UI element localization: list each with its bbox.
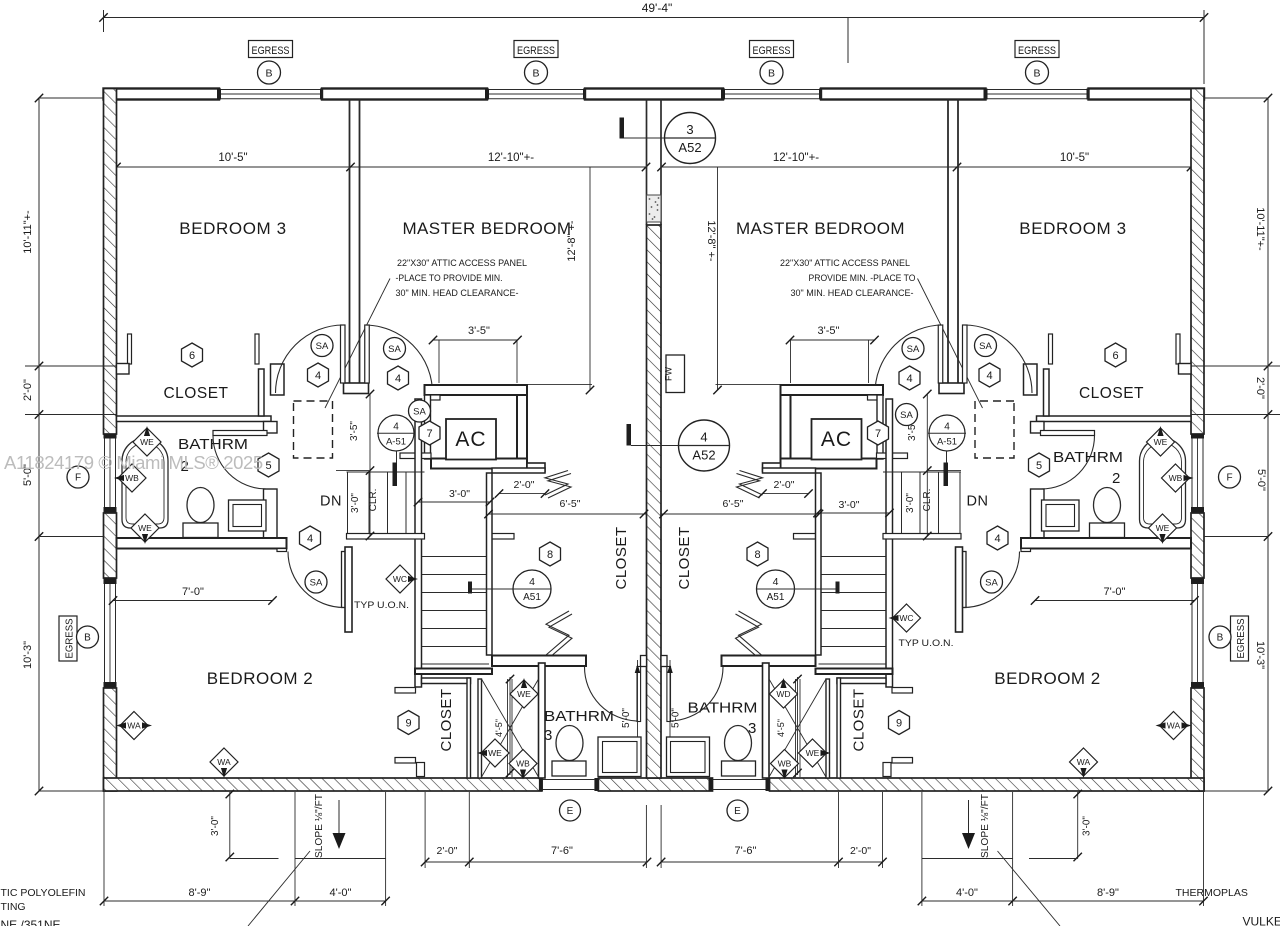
EGRESS label 4: [1015, 41, 1059, 58]
shower glass cross L: [482, 679, 539, 777]
svg-text:TYP U.O.N.: TYP U.O.N.: [354, 600, 409, 611]
svg-text:SA: SA: [413, 406, 426, 417]
hex keynote 6 closet R: [1105, 343, 1126, 367]
upper stair flight treads R: [959, 472, 961, 534]
wall break zigzag upper R: [740, 471, 763, 496]
svg-text:9: 9: [405, 717, 411, 729]
hex keynote 4 vestibule-right L: [388, 366, 409, 390]
svg-text:10'-11"+-: 10'-11"+-: [22, 210, 34, 254]
AC closet top wall R: [781, 385, 884, 395]
shower keynote WB L: [509, 750, 537, 778]
attic note leader left: [325, 279, 390, 409]
svg-text:SLOPE ⅛"/FT: SLOPE ⅛"/FT: [314, 794, 325, 858]
svg-text:A51: A51: [767, 592, 785, 603]
dim 7'-6" bottom right: [660, 805, 662, 868]
hex keynote 8 central closet L: [540, 542, 561, 566]
bedroom2 closet east wall R: [837, 678, 841, 778]
dim 3'-0" slope right: [1077, 792, 1079, 859]
shower west wall L: [478, 679, 482, 778]
svg-text:4: 4: [529, 576, 535, 588]
svg-text:2'-0": 2'-0": [1254, 377, 1266, 399]
svg-text:BATHRM: BATHRM: [1053, 449, 1123, 466]
tub keynote WE bottom L: [131, 514, 159, 542]
left side egress circle B: [77, 626, 99, 648]
hex keynote 4 hall L: [300, 526, 321, 550]
bathroom3 door leaf R: [667, 667, 671, 722]
svg-text:9: 9: [896, 717, 902, 729]
hex keynote 4 hall R: [987, 526, 1008, 550]
top exterior wall segment D: [821, 89, 986, 100]
bottom wall left unit threshold opening: [542, 779, 595, 781]
svg-text:WE: WE: [806, 748, 820, 758]
bottom wall right unit threshold opening: [713, 779, 766, 781]
svg-text:2'-0": 2'-0": [774, 479, 795, 491]
svg-text:4: 4: [700, 430, 707, 445]
tub keynote WE top L: [133, 428, 161, 456]
svg-text:3: 3: [686, 122, 693, 137]
svg-text:WB: WB: [125, 473, 139, 483]
shower keynote WE left L: [481, 739, 509, 767]
svg-text:NE /351NE: NE /351NE: [1, 918, 61, 926]
svg-text:CLOSET: CLOSET: [613, 526, 630, 589]
smoke alarm SA by AC R: [896, 404, 918, 426]
svg-text:5'-0": 5'-0": [621, 708, 632, 728]
svg-text:4: 4: [773, 576, 779, 588]
svg-text:AC: AC: [455, 428, 486, 451]
svg-text:2: 2: [1112, 470, 1120, 487]
slope arrow right: [968, 800, 970, 833]
bathroom2 right wall lower L: [264, 489, 278, 538]
bathroom2 right wall lower R: [1031, 489, 1045, 538]
master bedroom door leaf R: [938, 325, 943, 383]
svg-text:5'-0": 5'-0": [1255, 469, 1267, 491]
vanity bathroom3 R: [667, 737, 710, 777]
svg-text:FW: FW: [664, 367, 674, 381]
svg-text:7: 7: [875, 428, 881, 440]
bathtub R: [1140, 438, 1186, 528]
left exterior wall lower hatched section: [104, 688, 117, 791]
svg-text:6: 6: [189, 350, 195, 362]
AC unit box R: [812, 419, 862, 460]
wall break zigzag upper L: [545, 471, 568, 496]
bottom extension lines left: [103, 792, 105, 906]
bedroom3 closet bottom wall R: [1037, 416, 1192, 422]
slope arrow left: [338, 800, 340, 833]
svg-text:10'-11"+-: 10'-11"+-: [1254, 207, 1266, 251]
hex keynote 4 vestibule-left L: [308, 363, 329, 387]
svg-text:A-51: A-51: [386, 437, 406, 448]
right exterior wall lower hatched section: [1191, 688, 1204, 791]
svg-text:BEDROOM 2: BEDROOM 2: [207, 669, 314, 688]
right wall cap below bath window: [1191, 507, 1204, 513]
svg-text:BATHRM: BATHRM: [544, 708, 614, 725]
bedroom3 closet bottom wall L: [117, 416, 272, 422]
top wall window W2: [487, 89, 585, 91]
central closet top wall R: [763, 468, 816, 473]
svg-text:12'-8" +-: 12'-8" +-: [566, 220, 578, 262]
svg-text:22"X30" ATTIC ACCESS PANEL: 22"X30" ATTIC ACCESS PANEL: [397, 258, 527, 269]
svg-text:WE: WE: [138, 523, 152, 533]
left wall cap below bath window: [104, 507, 117, 513]
svg-text:SA: SA: [310, 577, 323, 588]
stair shaft bottom wall L: [415, 669, 492, 675]
tub keynote WE bottom R: [1149, 514, 1177, 542]
svg-text:10'-3": 10'-3": [1254, 641, 1266, 669]
central party wall stipple block: [647, 195, 662, 222]
wall break zigzag lower R: [739, 611, 762, 655]
svg-text:4: 4: [906, 373, 912, 385]
svg-text:7'-6": 7'-6": [735, 845, 757, 857]
bedroom2 closet top wall L: [422, 678, 471, 684]
AC unit box L: [446, 419, 496, 460]
svg-text:SLOPE ⅛"/FT: SLOPE ⅛"/FT: [980, 794, 991, 858]
AC closet left wall L: [425, 395, 431, 459]
bathroom2/bedroom2 wall L: [117, 538, 287, 549]
svg-text:8'-9": 8'-9": [1097, 887, 1119, 899]
right exterior wall mid hatched section: [1191, 513, 1204, 578]
attic access dashed panel R: [975, 401, 1014, 458]
toilet bathroom3 L: [556, 726, 583, 761]
left wall bedroom2 window: [104, 584, 106, 682]
svg-text:-PLACE TO PROVIDE MIN.: -PLACE TO PROVIDE MIN.: [396, 273, 503, 284]
right wall bathroom window: [1191, 439, 1193, 508]
svg-text:WE: WE: [488, 748, 502, 758]
left wall cap above bath window: [104, 434, 117, 439]
bathtub L: [122, 438, 168, 528]
leader line bottom right: [998, 851, 1061, 926]
svg-text:PROVIDE MIN. -PLACE TO: PROVIDE MIN. -PLACE TO: [809, 273, 916, 284]
svg-text:3'-5": 3'-5": [818, 325, 840, 337]
smoke alarm SA hall L: [305, 571, 327, 593]
smoke alarm SA by AC L: [409, 400, 431, 422]
slope pad edge left: [295, 858, 386, 860]
svg-text:4'-5": 4'-5": [776, 719, 786, 737]
wall keynote WA bottom R: [1070, 748, 1098, 776]
closet door jamb posts L: [128, 334, 132, 364]
svg-text:6'-5": 6'-5": [560, 498, 581, 510]
central closet west wall R: [816, 473, 822, 655]
landing edge at AC R: [877, 453, 908, 459]
tub keynote WB R: [1162, 464, 1190, 492]
central party wall hatched section: [647, 225, 662, 778]
svg-text:VULKE: VULKE: [1243, 915, 1280, 926]
svg-text:SA: SA: [907, 344, 920, 355]
svg-text:A51: A51: [523, 592, 541, 603]
central closet top wall L: [492, 468, 545, 473]
top exterior wall segment A: [104, 89, 220, 100]
svg-text:4: 4: [986, 370, 992, 382]
svg-text:A52: A52: [678, 140, 701, 155]
vanity bathroom2 R: [1042, 500, 1080, 531]
keynote WC diamond left: [386, 565, 414, 593]
svg-text:10'-3": 10'-3": [22, 641, 34, 669]
bedroom2 closet door jambs R: [892, 688, 913, 694]
svg-text:SA: SA: [985, 577, 998, 588]
top wall window W3: [723, 89, 821, 91]
hex keynote 6 closet L: [182, 343, 203, 367]
egress circle B4: [1026, 61, 1049, 84]
right side egress circle B: [1209, 626, 1231, 648]
bedroom3 closet right wall L: [259, 369, 265, 416]
svg-text:F: F: [75, 473, 81, 484]
hex keynote 7 L: [419, 421, 440, 445]
svg-text:4: 4: [994, 533, 1000, 545]
svg-text:WA: WA: [1077, 757, 1091, 767]
landing edge at AC L: [400, 453, 431, 459]
svg-text:4'-5": 4'-5": [494, 719, 504, 737]
main stair treads L: [422, 556, 489, 558]
svg-text:AC: AC: [821, 428, 852, 451]
toilet bathroom2 R: [1094, 488, 1121, 523]
dim 2'-0" bottom right: [838, 792, 840, 868]
bedroom3 door leaf L: [341, 325, 346, 383]
stair corridor west wall L: [415, 399, 422, 687]
bathroom2 right wall upper L: [264, 422, 278, 434]
smoke alarm SA vestibule-right L: [384, 338, 406, 360]
svg-text:3'-0": 3'-0": [449, 488, 470, 500]
stair corridor west wall R: [886, 399, 893, 687]
master door swing arc R: [875, 325, 943, 393]
shower east wall L: [539, 663, 546, 778]
svg-text:DN: DN: [320, 494, 342, 510]
EGRESS label 3: [750, 41, 794, 58]
svg-text:7'-0": 7'-0": [1104, 586, 1126, 598]
AC closet right wall L: [517, 395, 527, 464]
svg-text:B: B: [1033, 67, 1040, 79]
svg-text:F: F: [1226, 473, 1232, 484]
top exterior wall segment C (center): [585, 89, 723, 100]
svg-text:B: B: [1217, 633, 1224, 644]
bedroom3 door swing arc R: [964, 325, 1032, 393]
svg-text:EGRESS: EGRESS: [1236, 618, 1247, 658]
svg-text:WE: WE: [1154, 437, 1168, 447]
svg-text:A-51: A-51: [937, 437, 957, 448]
hex keynote 7 R: [868, 421, 889, 445]
dim 4'-5" shower right: [797, 677, 799, 775]
shower glass cross R: [769, 679, 826, 777]
stair landing edge L: [347, 534, 425, 540]
detail circle 4/A51 left: [513, 570, 551, 608]
shower west wall R: [826, 679, 830, 778]
svg-text:TING: TING: [1, 901, 26, 913]
bathroom3 door leaf L: [637, 667, 641, 722]
svg-text:B: B: [265, 67, 272, 79]
central closet west wall L: [487, 473, 493, 655]
svg-text:30" MIN. HEAD CLEARANCE-: 30" MIN. HEAD CLEARANCE-: [396, 288, 519, 299]
upper stair flight treads L: [347, 472, 349, 534]
wall keynote WA window R: [1160, 712, 1188, 740]
svg-text:CLOSET: CLOSET: [438, 688, 455, 751]
section cut marker 3/A52 tick bar: [620, 118, 625, 139]
bathroom2/bedroom2 wall R: [1021, 538, 1191, 549]
bedroom2 closet door jambs L: [395, 688, 416, 694]
left exterior wall upper hatched section: [104, 89, 117, 435]
smoke alarm SA vestibule-left R: [902, 338, 924, 360]
left wall cap above bedroom2 window: [104, 578, 117, 584]
svg-text:WA: WA: [127, 721, 141, 731]
shower keynote WE top L: [510, 680, 538, 708]
exit circle E right: [727, 800, 748, 821]
master bedroom door leaf L: [365, 325, 370, 383]
bathroom2 door swing arc R: [1041, 436, 1095, 490]
hex keynote 4 vestibule-right R: [979, 363, 1000, 387]
bedroom2 door swing arc R: [964, 552, 1020, 608]
svg-text:B: B: [532, 67, 539, 79]
stair landing edge R: [883, 534, 961, 540]
svg-text:WB: WB: [1169, 473, 1183, 483]
svg-text:2'-0": 2'-0": [514, 479, 535, 491]
svg-text:MASTER BEDROOM: MASTER BEDROOM: [736, 219, 905, 238]
svg-text:EGRESS: EGRESS: [517, 45, 555, 57]
svg-text:A11824179 © Miami MLS® 2025: A11824179 © Miami MLS® 2025: [4, 452, 263, 473]
main stair treads R: [819, 556, 886, 558]
svg-text:4: 4: [315, 370, 321, 382]
svg-text:12'-10"+-: 12'-10"+-: [773, 152, 819, 164]
right wall cap below bedroom2 window: [1191, 682, 1204, 688]
svg-text:WA: WA: [217, 757, 231, 767]
bedroom2 closet north wall R: [956, 547, 963, 632]
bedroom2 closet top wall R: [837, 678, 886, 684]
svg-text:12'-8" +-: 12'-8" +-: [705, 220, 717, 262]
dim 4'-5" shower left: [509, 677, 511, 775]
smoke alarm SA vestibule-right R: [975, 335, 997, 357]
top exterior wall segment E: [1089, 89, 1205, 100]
shower keynote WD top R: [770, 680, 798, 708]
svg-text:3'-0": 3'-0": [1082, 816, 1093, 836]
wall keynote WA window L: [120, 712, 148, 740]
svg-text:5'-0": 5'-0": [671, 708, 682, 728]
svg-text:BEDROOM 3: BEDROOM 3: [1019, 219, 1126, 238]
AC closet top wall L: [425, 385, 528, 395]
vestibule door post L: [344, 383, 369, 394]
wall break zigzag lower L: [546, 611, 569, 655]
svg-text:WC: WC: [899, 613, 913, 623]
attic note leader right: [918, 279, 983, 409]
right exterior wall upper hatched section: [1191, 89, 1204, 435]
svg-text:EGRESS: EGRESS: [753, 45, 791, 57]
right wall bedroom2 window: [1191, 584, 1193, 682]
svg-text:10'-5": 10'-5": [218, 152, 247, 164]
svg-text:SA: SA: [388, 344, 401, 355]
svg-text:4: 4: [307, 533, 313, 545]
FW fire wall label: [666, 355, 685, 393]
svg-text:7: 7: [426, 428, 432, 440]
svg-text:WE: WE: [517, 689, 531, 699]
bottom exterior wall left hatched run: [104, 778, 542, 791]
hex keynote 5 bathroom2 R: [1029, 453, 1050, 477]
bathroom2 door swing arc L: [213, 436, 267, 490]
svg-text:SA: SA: [316, 341, 329, 352]
svg-text:SA: SA: [979, 341, 992, 352]
svg-text:6: 6: [1112, 350, 1118, 362]
svg-text:BEDROOM 3: BEDROOM 3: [179, 219, 286, 238]
svg-text:THERMOPLAS: THERMOPLAS: [1176, 887, 1248, 899]
left wall cap below bedroom2 window: [104, 682, 117, 688]
svg-text:TYP U.O.N.: TYP U.O.N.: [899, 638, 954, 649]
bottom exterior wall center hatched run: [598, 778, 712, 791]
svg-text:CLOSET: CLOSET: [851, 688, 868, 751]
left exterior wall mid hatched section: [104, 513, 117, 578]
svg-text:4: 4: [944, 422, 950, 433]
svg-text:4'-0": 4'-0": [956, 887, 978, 899]
svg-text:CLOSET: CLOSET: [1079, 385, 1144, 402]
svg-text:DN: DN: [967, 494, 989, 510]
egress circle B3: [760, 61, 783, 84]
stair door leaf bar right: [944, 463, 949, 487]
right side EGRESS label: [1231, 616, 1249, 661]
svg-text:MASTER BEDROOM: MASTER BEDROOM: [402, 219, 571, 238]
svg-text:E: E: [567, 806, 574, 817]
detail circle 3/A52: [665, 113, 716, 164]
shower east wall R: [763, 663, 770, 778]
AC closet door notch L: [428, 395, 440, 400]
left side EGRESS label: [59, 616, 77, 661]
EGRESS label 1: [249, 41, 293, 58]
top exterior wall segment B: [322, 89, 487, 100]
svg-text:WA: WA: [1167, 721, 1181, 731]
AC closet door notch R: [868, 395, 880, 400]
attic access dashed panel L: [294, 401, 333, 458]
right wall cap above bath window: [1191, 434, 1204, 439]
partition wall bedroom3/master R: [957, 100, 959, 384]
svg-text:4: 4: [393, 422, 399, 433]
master door swing arc L: [365, 325, 433, 393]
svg-text:EGRESS: EGRESS: [1018, 45, 1056, 57]
leader line bottom left: [248, 851, 310, 926]
egress circle B2: [525, 61, 548, 84]
tub keynote WB L: [118, 464, 146, 492]
svg-text:E: E: [734, 806, 741, 817]
reference circle F right: [1219, 466, 1241, 488]
svg-text:B: B: [768, 67, 775, 79]
svg-text:WE: WE: [1156, 523, 1170, 533]
shower keynote WE right R: [799, 739, 827, 767]
tub keynote WE top R: [1147, 428, 1175, 456]
partition wall bedroom3/master L: [349, 100, 351, 384]
vestibule door post R: [939, 383, 964, 394]
exit circle E left: [560, 800, 581, 821]
central party wall upper double line: [646, 100, 648, 226]
bedroom2 door leaf L: [342, 552, 347, 608]
svg-text:BATHRM: BATHRM: [688, 700, 758, 717]
svg-text:3'-5": 3'-5": [349, 421, 360, 441]
svg-text:6'-5": 6'-5": [723, 498, 744, 510]
svg-text:WD: WD: [776, 689, 790, 699]
svg-text:CLR.: CLR.: [922, 489, 933, 512]
svg-text:5: 5: [265, 460, 271, 472]
svg-text:8: 8: [754, 549, 760, 561]
svg-text:WC: WC: [393, 574, 407, 584]
bathroom2 right wall upper R: [1031, 422, 1045, 434]
bedroom2 closet north wall L: [345, 547, 352, 632]
bottom extension lines right: [921, 792, 923, 906]
svg-text:49'-4": 49'-4": [642, 1, 673, 15]
AC closet left wall R: [877, 395, 883, 459]
svg-text:SA: SA: [900, 410, 913, 421]
svg-text:TIC POLYOLEFIN: TIC POLYOLEFIN: [1, 887, 86, 899]
svg-text:2'-0": 2'-0": [22, 379, 34, 401]
svg-text:WE: WE: [140, 437, 154, 447]
bedroom3 door leaf R: [963, 325, 968, 383]
bedroom2 door swing arc L: [288, 552, 344, 608]
section cut marker 4/A52 tick bar: [627, 424, 632, 446]
left wall bathroom window: [104, 439, 106, 508]
dim 2'-0" bottom left: [424, 792, 426, 868]
stair door leaf bar left: [393, 463, 398, 487]
bedroom3 closet right wall R: [1044, 369, 1050, 416]
svg-text:3'-5": 3'-5": [468, 325, 490, 337]
top wall window W4: [986, 89, 1089, 91]
